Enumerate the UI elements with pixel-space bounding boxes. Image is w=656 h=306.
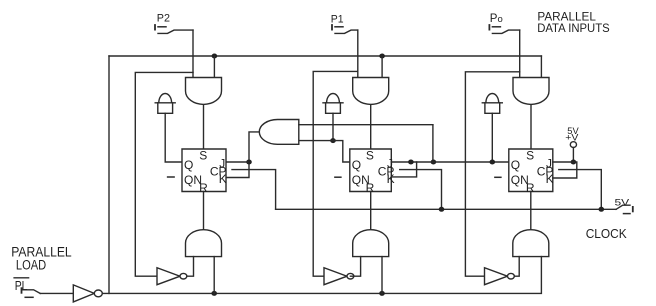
AND gate G2 (load P1): [353, 78, 389, 105]
wire FF1 CP to clock line: [232, 170, 276, 210]
AND gate G7 (count logic): [259, 120, 299, 145]
wire node to FF2 Q: [333, 141, 350, 162]
AND gate G6 (reset logic): [513, 230, 549, 257]
junction FF1 J: [246, 160, 252, 165]
svg-text:K: K: [387, 172, 395, 186]
flip-flop FF2: [350, 148, 395, 195]
wire: cell2 feedback loop: [313, 71, 358, 276]
svg-text:K: K: [219, 172, 227, 186]
wire FF1 J pin: [226, 161, 249, 163]
inverter U1: [157, 268, 180, 285]
junction clock at FF2 CP: [439, 207, 445, 212]
switch PL: [21, 288, 23, 293]
svg-text:5V: 5V: [615, 197, 631, 208]
indicator lamp L3 (Q0): [485, 103, 500, 114]
junction FF2 K tie: [408, 160, 414, 165]
wire lamp L1 to FF1 Q: [165, 113, 182, 162]
wire P1 switch to gate G2 left input: [357, 30, 359, 77]
wire: cell3 feedback loop: [465, 72, 519, 276]
wire FF2 J-K tie: [391, 162, 416, 177]
wire FF3 J pin and K tie: [553, 162, 577, 178]
svg-text:K: K: [546, 172, 554, 186]
svg-text:CLOCK: CLOCK: [586, 226, 627, 241]
wire G5 right input: [381, 257, 383, 294]
flip-flop FF3: [509, 148, 554, 195]
junction on bus at G2 right input: [379, 54, 385, 59]
wire: cell1 feedback loop: [135, 72, 193, 276]
wire G3 output to FF3 S: [530, 105, 532, 149]
svg-text:Q: Q: [511, 158, 520, 172]
wire U3 output to G6 left input: [514, 257, 519, 277]
wire Q0 tap down to G7 input: [432, 125, 434, 162]
wire P2 switch to gate G1 left input: [192, 30, 194, 77]
svg-text:P1: P1: [331, 13, 344, 25]
svg-text:S: S: [366, 148, 374, 162]
junction clock at FF3 CP: [599, 207, 605, 212]
indicator lamp L1 (Q2): [158, 103, 173, 114]
wire P0 switch to gate G3 left input: [519, 30, 521, 77]
wire G7 output to FF1 J/K: [226, 132, 259, 178]
wire G1 output to FF1 S: [203, 105, 205, 149]
switch CLOCK (5V): [616, 205, 630, 209]
wire FF2 CP drop: [400, 170, 442, 210]
switch P2: [154, 25, 156, 30]
AND gate G5 (reset logic): [353, 230, 389, 257]
junction PL at G4 right input: [211, 291, 217, 296]
wire: top PL-enable bus: [109, 55, 541, 57]
wire FF2 R to gate G5: [370, 192, 372, 231]
switch P0: [488, 25, 490, 30]
indicator lamp L2 (Q1): [326, 103, 341, 114]
AND gate G1 (load P2): [186, 78, 222, 105]
stub QN FF1: [168, 176, 175, 178]
wire PL switch to inverter U4: [40, 292, 73, 294]
wire +5V to FF3 J: [572, 148, 574, 163]
stub QN FF2: [335, 176, 341, 178]
wire: clock line: [276, 208, 616, 210]
AND gate G4 (reset logic): [186, 230, 222, 257]
svg-text:LOAD: LOAD: [16, 257, 47, 272]
wire: bus tap to G1 right input: [213, 56, 215, 78]
wire lamp L3 to Q0 line: [491, 113, 493, 162]
wire: bottom PL line: [103, 257, 542, 294]
wire FF3 R to gate G6: [530, 192, 532, 231]
wire U1 output to G4 left input: [187, 257, 194, 277]
wire FF3 CP drop: [559, 170, 602, 210]
wire: bus corner into gate G3 right input: [540, 56, 542, 78]
svg-text:DATA INPUTS: DATA INPUTS: [537, 21, 610, 35]
inverter U2: [324, 268, 347, 285]
wire lamp L2 stub: [332, 113, 334, 140]
svg-text:Po: Po: [490, 13, 503, 25]
AND gate G3 (load P0): [513, 78, 549, 105]
junction lamp L3 tap: [490, 160, 496, 165]
junction on bus at G1 right input: [212, 54, 218, 59]
wire node to G7 lower input: [299, 140, 333, 142]
wire G4 right input: [213, 257, 215, 294]
junction PL at G5 right input: [379, 291, 385, 296]
inverter U4 (PL buffer): [73, 285, 94, 302]
wire G7 upper input from Q0 line: [299, 124, 433, 126]
wire: bus tap to G2 right input: [381, 56, 383, 78]
junction Q0 line tap: [431, 160, 437, 165]
svg-text:Q: Q: [352, 158, 361, 172]
svg-text:S: S: [199, 148, 207, 162]
flip-flop FF1: [182, 148, 227, 195]
switch P1: [331, 25, 333, 30]
junction lamp L2 / G7 input / FF2 Q: [330, 138, 336, 143]
wire Q0 to FF2 J: [391, 161, 509, 163]
wire: left bus drop to bottom PL line: [108, 56, 110, 293]
stub QN FF3: [495, 176, 501, 178]
svg-text:S: S: [526, 148, 534, 162]
svg-text:P2: P2: [157, 12, 170, 24]
svg-text:Q: Q: [184, 158, 193, 172]
junction FF3 J: [571, 160, 577, 165]
wire FF1 R to gate G4: [203, 192, 205, 231]
inverter U3: [485, 268, 508, 285]
wire G2 output to FF2 S: [370, 105, 372, 149]
wire U2 output to G5 left input: [350, 257, 360, 277]
